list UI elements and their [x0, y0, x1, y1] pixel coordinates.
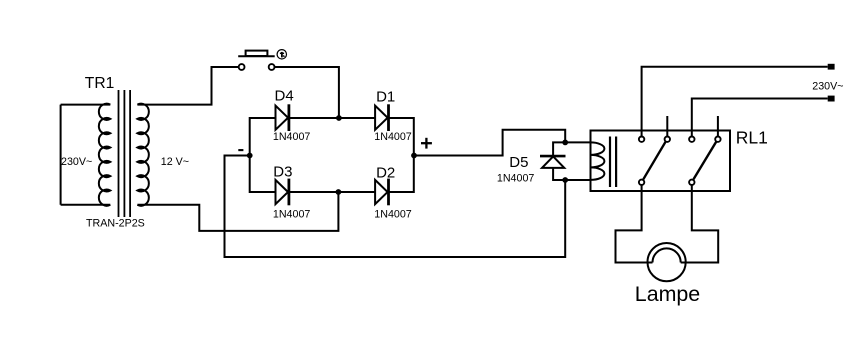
- wire relay bottom pin2 to lamp: [686, 185, 719, 263]
- transformer TR1 core: [119, 90, 131, 217]
- wire minus node to relay coil bottom: [225, 156, 566, 258]
- junction node bottom mid: [336, 189, 342, 195]
- wire primary loop left vertical: [60, 105, 62, 205]
- minus sign: [238, 149, 243, 151]
- svg-text:TRAN-2P2S: TRAN-2P2S: [86, 218, 145, 230]
- diode D5: [540, 142, 566, 180]
- svg-text:1N4007: 1N4007: [273, 131, 310, 143]
- wire secondary top lead to button: [137, 67, 238, 105]
- svg-text:1N4007: 1N4007: [273, 208, 310, 220]
- lamp: [648, 243, 686, 281]
- wire relay pin3 to terminal: [692, 99, 828, 137]
- wire D5 top node to relay: [565, 141, 590, 143]
- junction node D5 bottom: [562, 177, 568, 183]
- svg-text:1N4007: 1N4007: [374, 208, 411, 220]
- diode D4: [276, 104, 289, 131]
- transformer TR1 primary winding: [99, 104, 110, 206]
- junction node minus: [247, 153, 253, 159]
- wire secondary bottom lead to bridge bottom node: [137, 192, 338, 231]
- plus sign: [421, 138, 432, 149]
- svg-text:D3: D3: [273, 164, 292, 181]
- svg-text:230V~: 230V~: [61, 156, 92, 168]
- svg-text:D5: D5: [509, 154, 528, 171]
- relay RL1 box: [591, 131, 731, 192]
- wire primary top lead: [61, 104, 111, 106]
- relay contact 2 blade: [694, 142, 717, 180]
- diode D3: [276, 179, 289, 206]
- svg-text:D2: D2: [376, 164, 395, 181]
- svg-text:D1: D1: [376, 88, 395, 105]
- relay contact 1 blade: [643, 142, 665, 180]
- relay pin stub 4: [717, 116, 719, 137]
- transformer TR1 secondary winding: [137, 104, 148, 206]
- wire relay bottom pin1 to lamp: [616, 185, 648, 263]
- terminal square top: [828, 64, 835, 70]
- svg-text:D4: D4: [275, 88, 294, 105]
- wire relay pin1 to terminal: [642, 67, 828, 137]
- relay core: [610, 137, 616, 188]
- svg-text:TR1: TR1: [85, 75, 114, 92]
- wire plus node to relay coil top: [414, 130, 565, 156]
- junction node top mid: [336, 115, 342, 121]
- svg-text:RL1: RL1: [736, 128, 768, 148]
- svg-text:1N4007: 1N4007: [497, 173, 534, 185]
- bridge rectangle wires: [250, 118, 414, 192]
- diode D2: [375, 179, 388, 206]
- svg-text:230V~: 230V~: [812, 81, 843, 93]
- wire button to bridge top node: [275, 67, 339, 118]
- wire D5 bottom node to relay: [565, 179, 590, 181]
- diode D1: [375, 104, 388, 131]
- button actuator marker: [277, 50, 286, 59]
- wire primary bottom lead: [61, 204, 111, 206]
- push button switch: [238, 51, 275, 70]
- junction node plus: [411, 153, 417, 159]
- relay pin stub 2: [666, 116, 668, 137]
- junction node D5 top: [562, 140, 568, 146]
- svg-text:1N4007: 1N4007: [374, 131, 411, 143]
- svg-text:Lampe: Lampe: [635, 282, 700, 306]
- relay coil: [591, 142, 605, 180]
- terminal square bottom: [828, 96, 835, 102]
- relay contact circles: [639, 137, 721, 186]
- svg-text:12 V~: 12 V~: [161, 156, 189, 168]
